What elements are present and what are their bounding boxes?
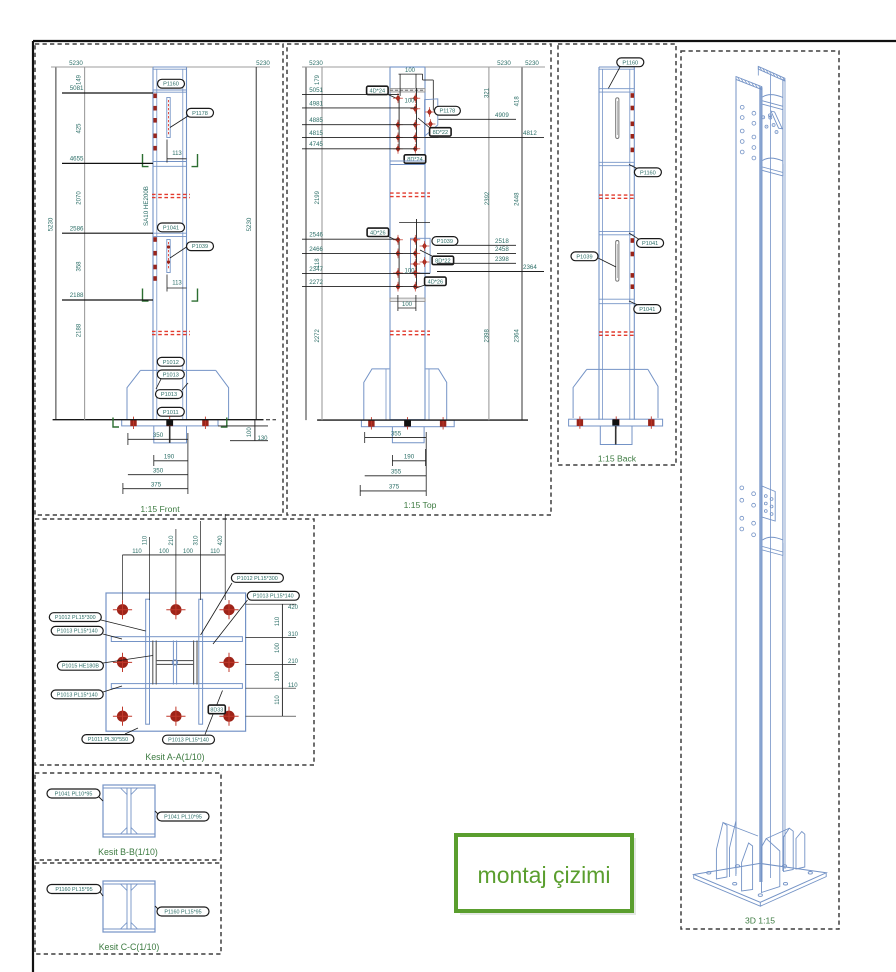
svg-text:310: 310 [193, 535, 199, 546]
top bolt axis lines upper [398, 96, 400, 151]
svg-text:P1160: P1160 [622, 60, 638, 66]
svg-text:5081: 5081 [70, 85, 84, 92]
top upper bolt group [396, 95, 401, 102]
A-A labels bottom [82, 735, 134, 744]
svg-text:5230: 5230 [256, 60, 270, 67]
svg-text:113: 113 [172, 151, 182, 157]
svg-text:2272: 2272 [309, 279, 323, 286]
svg-text:190: 190 [164, 453, 175, 460]
svg-text:2364: 2364 [515, 328, 521, 342]
front red section dashes lower [152, 330, 190, 332]
section B-B panel border [35, 773, 221, 860]
svg-text:Kesit A-A(1/10): Kesit A-A(1/10) [145, 752, 204, 762]
svg-text:355: 355 [391, 430, 402, 437]
C-C label left P1160 PL15*95 [47, 885, 101, 894]
svg-text:100: 100 [275, 642, 281, 653]
svg-text:P1013 PL15*140: P1013 PL15*140 [57, 629, 98, 635]
svg-text:100: 100 [247, 427, 253, 438]
top label 4D*26 [367, 228, 389, 236]
front column SA10 HE200B [152, 67, 154, 420]
svg-text:4909: 4909 [495, 112, 509, 119]
front ground baseline [53, 419, 264, 421]
svg-text:210: 210 [288, 659, 299, 665]
svg-text:5230: 5230 [246, 217, 253, 231]
svg-text:2392: 2392 [485, 191, 491, 205]
top ground baseline [317, 419, 528, 421]
front bottom dims [128, 438, 188, 440]
svg-text:2448: 2448 [515, 192, 521, 206]
svg-text:100: 100 [404, 99, 415, 105]
svg-text:P1013 PL15*140: P1013 PL15*140 [253, 594, 294, 600]
3D middle splice holes [740, 486, 744, 490]
A-A horizontal plates [111, 637, 242, 642]
front right bottom dims 100 130 [218, 425, 268, 427]
svg-text:1:15 Back: 1:15 Back [598, 454, 637, 464]
svg-text:P1039: P1039 [192, 244, 208, 250]
3D upper stiffener pair lower [763, 158, 784, 176]
svg-text:P1013 PL15*140: P1013 PL15*140 [57, 692, 98, 698]
front plate P1178 [167, 98, 170, 138]
svg-text:P1013: P1013 [161, 392, 177, 398]
front lower flange bolts [153, 237, 156, 242]
C-C label right P1160 PL15*95 [157, 907, 209, 916]
top splice seam lower with cap band [390, 298, 425, 302]
3D base plate [694, 863, 827, 902]
front label P1160 [158, 79, 185, 88]
back base gusset [573, 369, 658, 418]
3D base fin top chamfer lines [723, 823, 758, 837]
top red dashes lower [390, 330, 430, 332]
top label 4D*26 lower [425, 277, 447, 285]
3D base plate holes [707, 872, 711, 875]
top label 8D*22 lower [432, 256, 454, 264]
svg-text:5230: 5230 [48, 217, 55, 231]
top pedestal [392, 427, 424, 443]
top dim 100 top [399, 73, 423, 75]
back label P1160 top with leader [617, 58, 644, 67]
front dim 113 lower [166, 275, 168, 292]
back slot plate lower [616, 241, 619, 282]
svg-text:110: 110 [288, 683, 298, 689]
svg-text:P1012 PL15*300: P1012 PL15*300 [237, 576, 278, 582]
3D base gusset fins [716, 823, 727, 880]
svg-text:2466: 2466 [309, 246, 323, 253]
svg-text:4812: 4812 [523, 130, 537, 137]
back anchor bolts [577, 419, 583, 426]
back splice seam 1 [599, 161, 634, 163]
svg-text:100: 100 [159, 549, 170, 555]
svg-text:375: 375 [151, 481, 162, 488]
montaj cizimi title box [456, 835, 632, 911]
A-A center H-beam P1015 HE180B [153, 641, 197, 685]
top label P1039 [432, 237, 458, 246]
back red dashes upper [599, 194, 634, 196]
svg-text:100: 100 [183, 549, 194, 555]
svg-text:2272: 2272 [315, 328, 321, 342]
svg-text:P1041 PL10*95: P1041 PL10*95 [55, 791, 93, 797]
svg-text:190: 190 [404, 453, 415, 460]
front dim 113 upper [166, 140, 168, 163]
front red section dashes mid-upper [152, 193, 190, 195]
svg-text:2364: 2364 [523, 264, 537, 271]
back label P1041 lower [629, 301, 640, 306]
top bottom dims [365, 437, 427, 439]
top column web face [390, 67, 425, 420]
svg-text:2546: 2546 [309, 232, 323, 239]
A-A labels left [49, 613, 101, 622]
3D top inclined gusset with bolts [771, 111, 782, 129]
svg-text:4745: 4745 [309, 141, 323, 148]
svg-text:113: 113 [172, 281, 182, 287]
back slot plate upper [616, 98, 619, 139]
svg-text:100: 100 [405, 68, 416, 74]
back base plate [569, 419, 663, 426]
front base plate [122, 420, 218, 426]
svg-text:2188: 2188 [70, 292, 84, 299]
svg-text:SA10 HE200B: SA10 HE200B [143, 186, 150, 226]
C-C section P1160 [103, 881, 155, 932]
svg-text:P1160: P1160 [163, 82, 179, 88]
svg-text:110: 110 [275, 616, 281, 626]
front splice seam lower [153, 232, 187, 234]
front green section marks upper [143, 154, 149, 167]
top gusset plate inclined [425, 99, 438, 136]
svg-text:P1039: P1039 [437, 239, 453, 245]
svg-text:P1160 PL15*95: P1160 PL15*95 [164, 909, 201, 915]
top splice seam upper [390, 160, 425, 162]
front labels P1012 P1013 P1013 P1011 [157, 357, 184, 366]
svg-text:210: 210 [169, 535, 175, 546]
back label P1160 mid [629, 165, 640, 171]
svg-text:4815: 4815 [309, 130, 323, 137]
back pedestal [600, 426, 632, 445]
back label P1041 upper [629, 233, 640, 240]
front label P1041 [158, 223, 185, 232]
svg-text:4D*26: 4D*26 [428, 279, 444, 285]
svg-text:418: 418 [515, 96, 521, 107]
svg-text:2518: 2518 [495, 238, 509, 245]
top view panel border [287, 44, 551, 515]
svg-text:100: 100 [275, 671, 281, 682]
svg-text:8D33: 8D33 [210, 707, 223, 713]
svg-text:4D*24: 4D*24 [370, 88, 386, 94]
front splice seam upper [153, 161, 187, 163]
svg-text:8D*22: 8D*22 [433, 130, 449, 136]
section C-C panel border [35, 863, 221, 954]
A-A bolts 8D33 [117, 604, 128, 615]
svg-text:110: 110 [132, 549, 142, 555]
front green base marks [113, 418, 119, 428]
svg-text:5051: 5051 [309, 87, 323, 94]
front dim 2586 [62, 232, 153, 234]
front green section marks lower [143, 289, 149, 302]
svg-text:4D*26: 4D*26 [370, 230, 386, 236]
svg-text:Kesit B-B(1/10): Kesit B-B(1/10) [98, 847, 158, 857]
top label 8D*22 upper [430, 128, 452, 136]
svg-text:149: 149 [77, 74, 83, 85]
back label P1039 with leader [571, 252, 598, 261]
svg-text:4981: 4981 [309, 100, 323, 107]
svg-text:321: 321 [485, 87, 491, 98]
B-B label right P1041 PL10*95 [157, 812, 209, 821]
svg-text:P1041: P1041 [163, 225, 179, 231]
back flange bolts upper [631, 93, 634, 98]
front dim 5081 [62, 92, 153, 94]
front cap plate P1160 seam [153, 89, 187, 91]
front anchor bolts [130, 419, 136, 426]
B-B label left P1041 PL10*95 [47, 789, 100, 798]
B-B section P1041 [103, 785, 155, 837]
svg-text:425: 425 [77, 123, 83, 134]
front dim 4655 [62, 162, 153, 164]
3D view panel border [681, 51, 839, 929]
svg-text:P1041: P1041 [642, 241, 658, 247]
back splice seam 2 [599, 230, 634, 232]
svg-text:2070: 2070 [77, 191, 83, 205]
svg-text:5230: 5230 [497, 60, 511, 67]
3D middle stiffener [763, 537, 784, 555]
svg-text:P1011 PL30*550: P1011 PL30*550 [88, 737, 128, 743]
svg-text:P1015 HE180B: P1015 HE180B [62, 664, 100, 670]
A-A vertical stiffeners [146, 599, 150, 724]
svg-text:5230: 5230 [525, 60, 539, 67]
svg-text:2188: 2188 [77, 323, 83, 337]
back column [598, 67, 600, 420]
svg-text:1:15 Front: 1:15 Front [140, 504, 180, 514]
top label P1178 [434, 106, 460, 115]
front plate P1039 [167, 240, 170, 273]
3D middle splice plate [762, 486, 775, 521]
svg-text:110: 110 [143, 535, 149, 545]
svg-text:179: 179 [315, 74, 321, 85]
sheet border frame [33, 40, 896, 42]
svg-text:8D*24: 8D*24 [407, 157, 423, 163]
svg-text:montaj çizimi: montaj çizimi [478, 862, 611, 888]
back splice seam 3 [599, 298, 634, 300]
A-A right dims [281, 604, 283, 716]
svg-text:375: 375 [389, 484, 400, 491]
top anchor bolts [368, 420, 374, 427]
svg-text:2398: 2398 [485, 328, 491, 342]
top cap plate band [390, 89, 425, 93]
svg-text:4655: 4655 [70, 156, 84, 163]
svg-text:P1013: P1013 [163, 372, 179, 378]
svg-text:358: 358 [77, 261, 83, 272]
top base plate [361, 420, 454, 427]
svg-text:P1160: P1160 [640, 170, 656, 176]
top label 8D*24 [404, 155, 426, 163]
top dim 100 fourth [397, 295, 399, 311]
svg-text:Kesit C-C(1/10): Kesit C-C(1/10) [99, 942, 160, 952]
svg-text:P1041: P1041 [639, 307, 655, 313]
svg-text:5230: 5230 [309, 60, 323, 67]
top label 4D*24 [367, 86, 389, 94]
svg-text:110: 110 [210, 549, 220, 555]
svg-text:350: 350 [153, 432, 164, 439]
svg-text:118: 118 [315, 258, 321, 268]
3D column body verticals [735, 78, 737, 875]
svg-text:P1041 PL10*95: P1041 PL10*95 [164, 814, 202, 820]
svg-text:P1011: P1011 [163, 410, 179, 416]
svg-text:P1039: P1039 [576, 254, 592, 260]
3D top stiffener plates [763, 95, 784, 110]
svg-text:420: 420 [288, 605, 299, 611]
front label P1178 with leader [170, 116, 188, 128]
svg-text:2199: 2199 [315, 190, 321, 204]
svg-text:350: 350 [153, 467, 164, 474]
back cap seam [599, 88, 634, 90]
svg-text:P1012 PL15*300: P1012 PL15*300 [55, 615, 96, 621]
svg-text:130: 130 [258, 436, 269, 442]
svg-text:355: 355 [391, 468, 402, 475]
svg-text:110: 110 [275, 695, 281, 705]
back view panel border [558, 44, 676, 465]
svg-text:P1178: P1178 [192, 111, 208, 117]
section A-A panel border [35, 519, 314, 765]
svg-text:100: 100 [402, 302, 413, 308]
svg-text:P1012: P1012 [163, 360, 179, 366]
front pedestal [154, 426, 187, 443]
3D top bolt holes on flange [740, 105, 744, 109]
top red dashes upper [390, 192, 430, 194]
svg-text:2458: 2458 [495, 246, 509, 253]
A-A top dims [123, 554, 226, 556]
svg-text:2586: 2586 [70, 225, 84, 232]
svg-text:1:15 Top: 1:15 Top [404, 500, 437, 510]
A-A labels right [231, 574, 283, 583]
svg-text:310: 310 [288, 632, 299, 638]
front base gusset outline [127, 370, 229, 419]
back red dashes lower [599, 331, 634, 333]
svg-text:4885: 4885 [309, 117, 323, 124]
A-A label 8D33 [208, 705, 225, 714]
svg-text:P1160 PL15*95: P1160 PL15*95 [55, 887, 92, 893]
svg-text:P1013 PL15*140: P1013 PL15*140 [168, 738, 209, 744]
front upper flange bolts [153, 94, 156, 99]
svg-text:3D 1:15: 3D 1:15 [745, 916, 775, 926]
back flange bolts lower [631, 238, 634, 243]
top left dim chain [305, 67, 307, 420]
top right dim chain [488, 67, 490, 420]
front dim 2188 [62, 299, 153, 301]
front label P1039 with leader [170, 246, 188, 258]
svg-text:5230: 5230 [69, 60, 83, 67]
3D top cap hatched bands [736, 77, 762, 90]
top base gussets [364, 369, 447, 420]
svg-text:P1178: P1178 [440, 109, 456, 115]
front left dim chain [55, 67, 57, 420]
svg-text:420: 420 [218, 535, 224, 546]
front view panel border [35, 44, 283, 515]
A-A base plate P1011 [106, 593, 246, 731]
svg-text:2398: 2398 [495, 256, 509, 263]
